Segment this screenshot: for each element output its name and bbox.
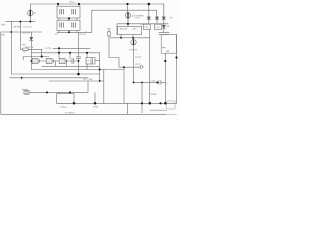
svg-text:C14 10u: C14 10u: [23, 25, 32, 28]
svg-text:10k: 10k: [33, 61, 36, 64]
svg-text:10k: 10k: [61, 61, 64, 64]
svg-text:MC340: MC340: [120, 28, 128, 31]
svg-text:-: -: [166, 96, 167, 99]
svg-text:OUT1: OUT1: [135, 56, 142, 59]
svg-text:0.1uF: 0.1uF: [150, 79, 156, 82]
svg-text:LS1: LS1: [145, 26, 150, 29]
svg-text:R17 10k: R17 10k: [84, 78, 93, 81]
svg-text:1N4148: 1N4148: [25, 46, 34, 49]
svg-text:TP11: TP11: [135, 17, 141, 20]
svg-text:OUT: OUT: [135, 63, 140, 66]
svg-text:TP10: TP10: [69, 1, 75, 4]
svg-text:32.768kHz: 32.768kHz: [65, 111, 75, 114]
svg-text:LM4040: LM4040: [22, 32, 31, 35]
svg-text:63A: 63A: [133, 28, 138, 31]
svg-text:LM7805: LM7805: [13, 26, 22, 29]
svg-text:10k: 10k: [47, 61, 50, 64]
svg-text:1u: 1u: [85, 30, 87, 33]
svg-text:+2.5V: +2.5V: [45, 47, 52, 50]
svg-text:10k: 10k: [23, 50, 26, 53]
svg-text:2N2222: 2N2222: [129, 49, 138, 52]
svg-text:PWR: PWR: [22, 88, 28, 91]
svg-text:100uF: 100uF: [150, 93, 157, 96]
svg-text:GND: GND: [93, 106, 98, 109]
svg-text:8R: 8R: [166, 50, 169, 53]
svg-text:LS2: LS2: [156, 26, 161, 29]
svg-text:XTAL1: XTAL1: [60, 106, 68, 109]
svg-text:VR2: VR2: [1, 23, 6, 26]
